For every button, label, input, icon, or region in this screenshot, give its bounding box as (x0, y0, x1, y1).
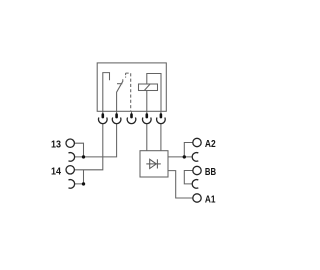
fixed contact terminal 13 (103, 73, 110, 112)
svg-text:14: 14 (51, 166, 61, 177)
coil diagonal (144, 84, 150, 91)
plug pin 3 (130, 113, 133, 118)
socket arc below BB (192, 180, 198, 189)
plug socket 2 (112, 117, 121, 123)
terminal circle A1 (193, 194, 201, 202)
wire terminal 13 down to node (75, 143, 84, 157)
relay coil K1 (139, 84, 158, 91)
wire terminal A2 down to node (184, 143, 192, 157)
plug pin 2 (115, 113, 118, 118)
terminal circle BB (193, 166, 201, 174)
plug pin 4 (146, 113, 149, 118)
wire socket1 to terminal 14 (75, 124, 103, 170)
terminal circle A2 (193, 138, 201, 146)
wire socket4 to diode box (146, 124, 148, 151)
pin stub 5 (160, 111, 162, 114)
junction node A2 (183, 155, 186, 158)
pin stub 4 (146, 111, 148, 114)
coil circuit wire (147, 74, 161, 112)
pin stub 3 (131, 111, 133, 114)
svg-text:13: 13 (51, 140, 61, 151)
plug pin 1 (102, 113, 105, 118)
pin stub 1 (102, 111, 104, 114)
svg-text:BB: BB (205, 167, 216, 178)
wire diode box to terminal A1 (168, 171, 193, 198)
diode D1 (146, 159, 161, 168)
wire diode box to A2 node (168, 156, 192, 158)
plug socket 5 (157, 117, 166, 123)
input circuit box (140, 151, 168, 177)
wire socket2 to node 13 (75, 124, 117, 157)
socket arc below 13 (68, 153, 74, 162)
plug socket 3 (127, 117, 136, 123)
wire socket below 14 to node (75, 170, 84, 184)
terminal circle 14 (66, 166, 74, 174)
junction node 14 (82, 182, 85, 185)
junction node 13 (82, 155, 85, 158)
contact tick (117, 83, 122, 85)
svg-text:A2: A2 (205, 139, 216, 150)
plug socket 4 (143, 117, 152, 123)
plug socket 1 (98, 117, 107, 123)
bridge terminal BB to socket (184, 171, 192, 184)
relay module box (97, 63, 166, 111)
socket arc below 14 (68, 180, 74, 189)
pin stub 2 (116, 111, 118, 114)
plug pin 5 (160, 113, 163, 118)
socket arc below A2 (192, 153, 198, 162)
actuator linkage (dashed) (125, 73, 127, 78)
svg-text:A1: A1 (205, 195, 216, 206)
terminal circle 13 (66, 139, 74, 147)
moving contact (NO contact) (117, 79, 123, 111)
wire socket5 to diode box (160, 124, 162, 151)
